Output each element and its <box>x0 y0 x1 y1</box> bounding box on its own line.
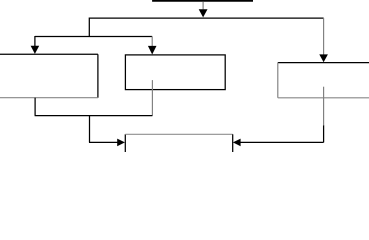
middle box <box>125 55 225 90</box>
wire: vertical from top box down <box>202 2 204 10</box>
bottom box right border <box>232 134 234 152</box>
wire: horizontal H11 into bottom box <box>89 141 118 143</box>
wire: horizontal H10 <box>35 115 153 117</box>
wire: gray vertical V9 upper part (starts inside right box) <box>323 87 325 126</box>
wire: elbow H2+V2 (down from y18 line to y36 line) <box>89 18 323 36</box>
wire: vertical V9 lower part <box>323 126 325 143</box>
arrowhead pointing right into bottom box left edge <box>117 139 125 147</box>
wire: horizontal H3 <box>35 36 152 38</box>
wire: vertical V6 from left box bottom <box>34 98 36 116</box>
wire: horizontal H13 <box>238 141 324 143</box>
arrowhead into middle box top <box>148 46 157 55</box>
arrowhead pointing left into bottom box right edge <box>233 139 241 147</box>
box top (cut off at top edge), bottom border only <box>152 0 253 2</box>
right box (cut off at right edge): top border <box>278 62 369 64</box>
left box right border <box>97 54 99 97</box>
wire: gray vertical stub V4 <box>151 37 153 47</box>
left box (cut off at left edge) top border <box>0 53 98 55</box>
arrowhead into right box top <box>319 54 328 62</box>
right box gray left border <box>277 63 279 98</box>
arrowhead down onto distribution line <box>199 9 208 17</box>
right box gray bottom border <box>278 97 369 99</box>
arrowhead into left box top <box>31 46 40 54</box>
bottom box gray top border <box>125 133 232 135</box>
wire: gray vertical V7 from inside middle box down <box>151 80 153 116</box>
left box gray bottom border <box>0 97 98 99</box>
wire: gray vertical V5 down to right box <box>323 18 325 55</box>
wire: vertical stub V3 <box>34 36 36 46</box>
wire: vertical V8 down from T junction <box>89 116 91 143</box>
bottom box (cut off at bottom): left border <box>124 134 126 152</box>
